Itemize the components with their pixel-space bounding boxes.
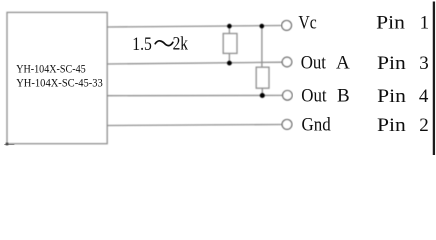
svg-text:Pin: Pin (377, 115, 406, 136)
svg-text:3: 3 (419, 53, 429, 74)
svg-text:Vc: Vc (298, 12, 316, 33)
svg-text:2k: 2k (173, 33, 189, 54)
svg-text:1: 1 (420, 12, 430, 33)
svg-text:4: 4 (419, 86, 429, 107)
svg-text:Pin: Pin (376, 12, 405, 33)
svg-text:Out: Out (301, 86, 327, 107)
svg-text:Pin: Pin (377, 86, 406, 107)
svg-text:YH-104X-SC-45-33: YH-104X-SC-45-33 (16, 75, 103, 89)
svg-text:2: 2 (419, 115, 429, 136)
svg-text:Gnd: Gnd (302, 115, 332, 136)
svg-text:B: B (337, 86, 350, 107)
svg-text:Out: Out (301, 53, 327, 74)
svg-text:YH-104X-SC-45: YH-104X-SC-45 (16, 62, 86, 76)
svg-text:Pin: Pin (377, 53, 406, 74)
svg-text:A: A (336, 53, 350, 74)
svg-text:1.5: 1.5 (132, 34, 152, 55)
